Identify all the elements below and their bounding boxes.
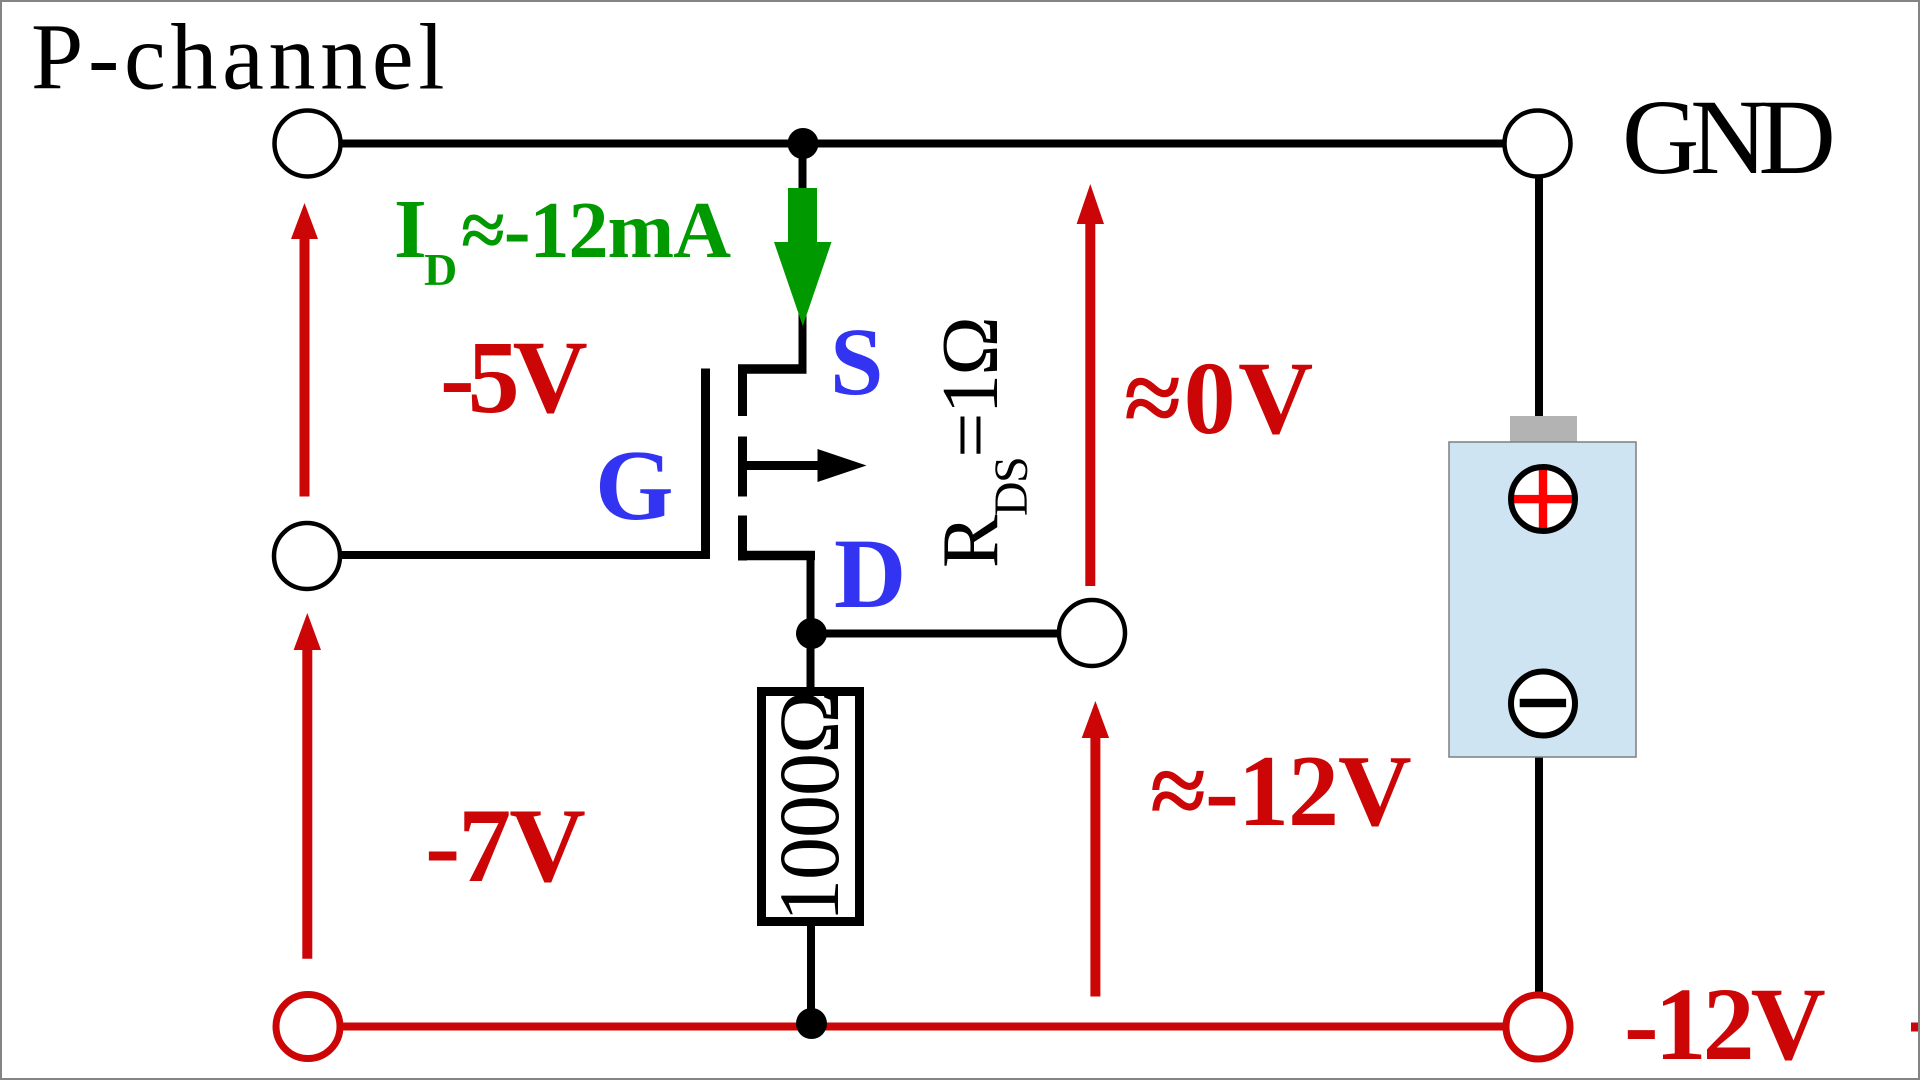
wire battery to -12V terminal — [1535, 756, 1543, 1026]
terminal drain right — [1059, 600, 1125, 666]
svg-text:-7V: -7V — [425, 787, 585, 904]
wire drain vertical — [807, 555, 815, 691]
wire top rail (node GND) — [307, 140, 1537, 148]
svg-text:1000Ω: 1000Ω — [761, 691, 857, 922]
svg-text:D: D — [834, 518, 906, 629]
transistor Q1 channel dash 1 — [738, 365, 747, 417]
wire red stub at right edge — [1911, 1023, 1920, 1032]
wire source vertical — [799, 143, 807, 370]
transistor Q1 body arrowhead (P-channel) — [818, 449, 867, 482]
voltage arrow ~-12V (red) — [1082, 701, 1109, 997]
transistor Q1 body line — [747, 461, 822, 470]
battery BT1 plus terminal circle — [1511, 467, 1575, 531]
voltage arrow ~0V (red) — [1077, 184, 1104, 586]
battery BT1 minus bar — [1520, 699, 1566, 707]
svg-text:-5V: -5V — [440, 320, 587, 435]
svg-text:I: I — [394, 183, 427, 276]
transistor Q1 channel dash 3 — [738, 516, 747, 561]
svg-text:-12V: -12V — [1624, 967, 1825, 1080]
node junction dot bottom — [796, 1008, 827, 1039]
resistor R1 body — [762, 692, 860, 922]
svg-text:≈-12mA: ≈-12mA — [461, 187, 731, 275]
battery BT1 minus terminal circle — [1511, 672, 1575, 736]
svg-text:≈0V: ≈0V — [1124, 341, 1316, 456]
transistor Q1 channel dash 2 — [738, 437, 747, 497]
wire GND to battery — [1535, 143, 1543, 418]
terminal top-left — [275, 111, 341, 177]
svg-text:≈-12V: ≈-12V — [1150, 735, 1411, 848]
voltage arrow -5V (red) — [291, 203, 318, 497]
voltage arrow -7V (red) — [294, 613, 321, 959]
battery BT1 plus cross horizontal — [1512, 495, 1575, 503]
battery BT1 body — [1449, 442, 1636, 757]
svg-text:P-channel: P-channel — [31, 6, 449, 110]
terminal -12V bottom-right (red) — [1506, 995, 1570, 1059]
terminal gate — [274, 523, 340, 589]
battery BT1 terminal cap — [1510, 416, 1577, 442]
svg-text:D: D — [424, 244, 457, 295]
current arrow ID (green) — [774, 188, 832, 326]
transistor Q1 source segment — [738, 364, 807, 374]
node junction dot drain — [796, 618, 827, 649]
battery BT1 plus cross vertical — [1539, 467, 1547, 531]
svg-text:S: S — [830, 308, 883, 415]
wire bottom rail -12V (red) — [308, 1023, 1538, 1031]
node junction dot top — [788, 128, 819, 159]
svg-text:GND: GND — [1622, 79, 1832, 197]
battery BT1 plus ring — [1511, 467, 1575, 531]
wire gate horizontal — [307, 551, 707, 559]
terminal GND — [1505, 111, 1571, 177]
svg-text:G: G — [595, 429, 674, 541]
transistor Q1 gate bar — [701, 369, 710, 560]
terminal bottom-left (red) — [276, 995, 340, 1059]
wire resistor bottom — [807, 924, 815, 1026]
wire drain to right terminal — [811, 630, 1092, 638]
transistor Q1 drain segment — [738, 551, 815, 561]
